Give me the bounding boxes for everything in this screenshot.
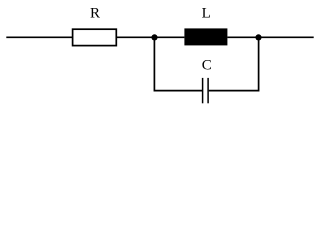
wire (259, 36, 314, 38)
svg-text:C: C (202, 58, 212, 74)
wire (154, 37, 202, 90)
svg-text:L: L (202, 6, 211, 22)
wire (155, 36, 185, 38)
wire (209, 37, 259, 90)
inductor L (184, 28, 227, 45)
resistor R (73, 29, 117, 45)
node A (151, 34, 157, 40)
capacitor C (203, 78, 209, 103)
svg-text:R: R (90, 6, 100, 22)
node B (255, 34, 261, 40)
wire (116, 36, 154, 38)
wire (6, 36, 73, 38)
wire (227, 36, 258, 38)
